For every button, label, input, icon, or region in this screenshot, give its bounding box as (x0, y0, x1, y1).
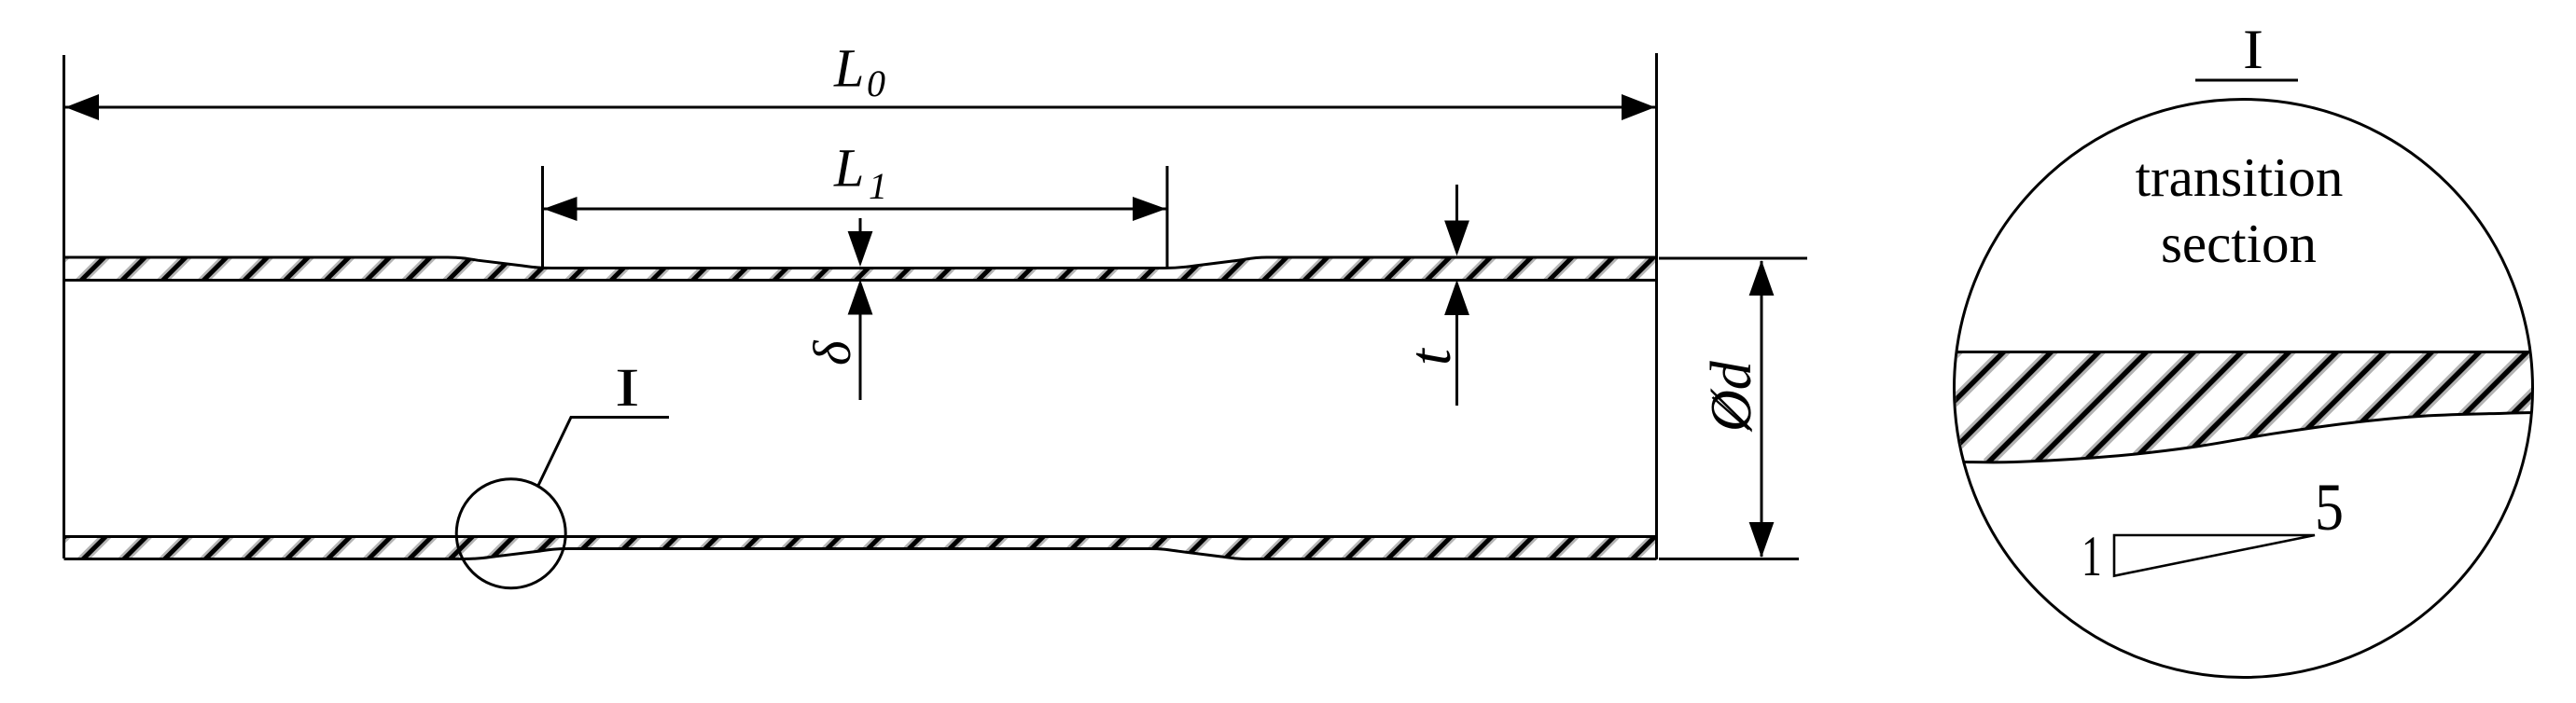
L1 left arrowhead (544, 197, 578, 221)
t upper arrowhead (1444, 221, 1469, 256)
top wall inner surface (64, 279, 1657, 282)
big detail circle (1955, 100, 2533, 678)
svg-text:5: 5 (2315, 470, 2344, 544)
svg-text:1: 1 (2082, 526, 2102, 588)
delta dimension upper line (859, 218, 862, 233)
svg-text:t: t (1397, 347, 1463, 365)
svg-text:I: I (615, 358, 640, 418)
diameter top extension line (1659, 257, 1807, 260)
bottom wall inner surface (64, 535, 1657, 538)
tube left end line (63, 55, 65, 558)
delta upper arrowhead (848, 231, 873, 267)
detail band bottom edge (1964, 413, 2532, 462)
diameter dimension line (1761, 261, 1763, 557)
diameter bottom extension line (1659, 558, 1799, 560)
svg-text:Ød: Ød (1700, 360, 1763, 433)
diameter label slash extension (1713, 397, 1749, 430)
delta dimension lower line (859, 313, 862, 400)
tube right end line (1655, 53, 1658, 559)
L1 left extension line (541, 166, 544, 268)
top wall hatch band (34, 250, 1661, 287)
detail title underline (2195, 79, 2298, 82)
L1 right arrowhead (1133, 197, 1166, 221)
L1 dimension line (543, 208, 1166, 211)
svg-text:0: 0 (867, 62, 885, 104)
L1 right extension line (1166, 166, 1169, 268)
detail circle I (456, 479, 565, 588)
svg-text:δ: δ (803, 339, 862, 365)
L0 left arrowhead (65, 94, 99, 120)
leader line (538, 418, 669, 487)
svg-text:I: I (2243, 19, 2263, 81)
bottom wall outer surface (64, 549, 1657, 559)
t dimension upper line (1455, 185, 1458, 222)
svg-text:section: section (2161, 213, 2317, 274)
delta lower arrowhead (848, 280, 873, 315)
svg-text:1: 1 (869, 165, 887, 207)
top wall outer surface (64, 257, 1657, 269)
t lower arrowhead (1444, 280, 1469, 315)
L0 dimension line (65, 106, 1655, 109)
svg-text:L: L (833, 38, 864, 99)
t dimension lower line (1455, 313, 1458, 406)
svg-text:L: L (833, 138, 864, 199)
detail band top edge (1956, 351, 2531, 353)
diameter lower arrowhead (1749, 522, 1775, 558)
slope wedge (2114, 535, 2315, 576)
svg-text:transition: transition (2136, 146, 2344, 208)
diameter upper arrowhead (1749, 260, 1775, 296)
L0 right arrowhead (1622, 94, 1655, 120)
detail hatch region (1845, 345, 2576, 463)
bottom wall hatch band (35, 529, 1663, 566)
